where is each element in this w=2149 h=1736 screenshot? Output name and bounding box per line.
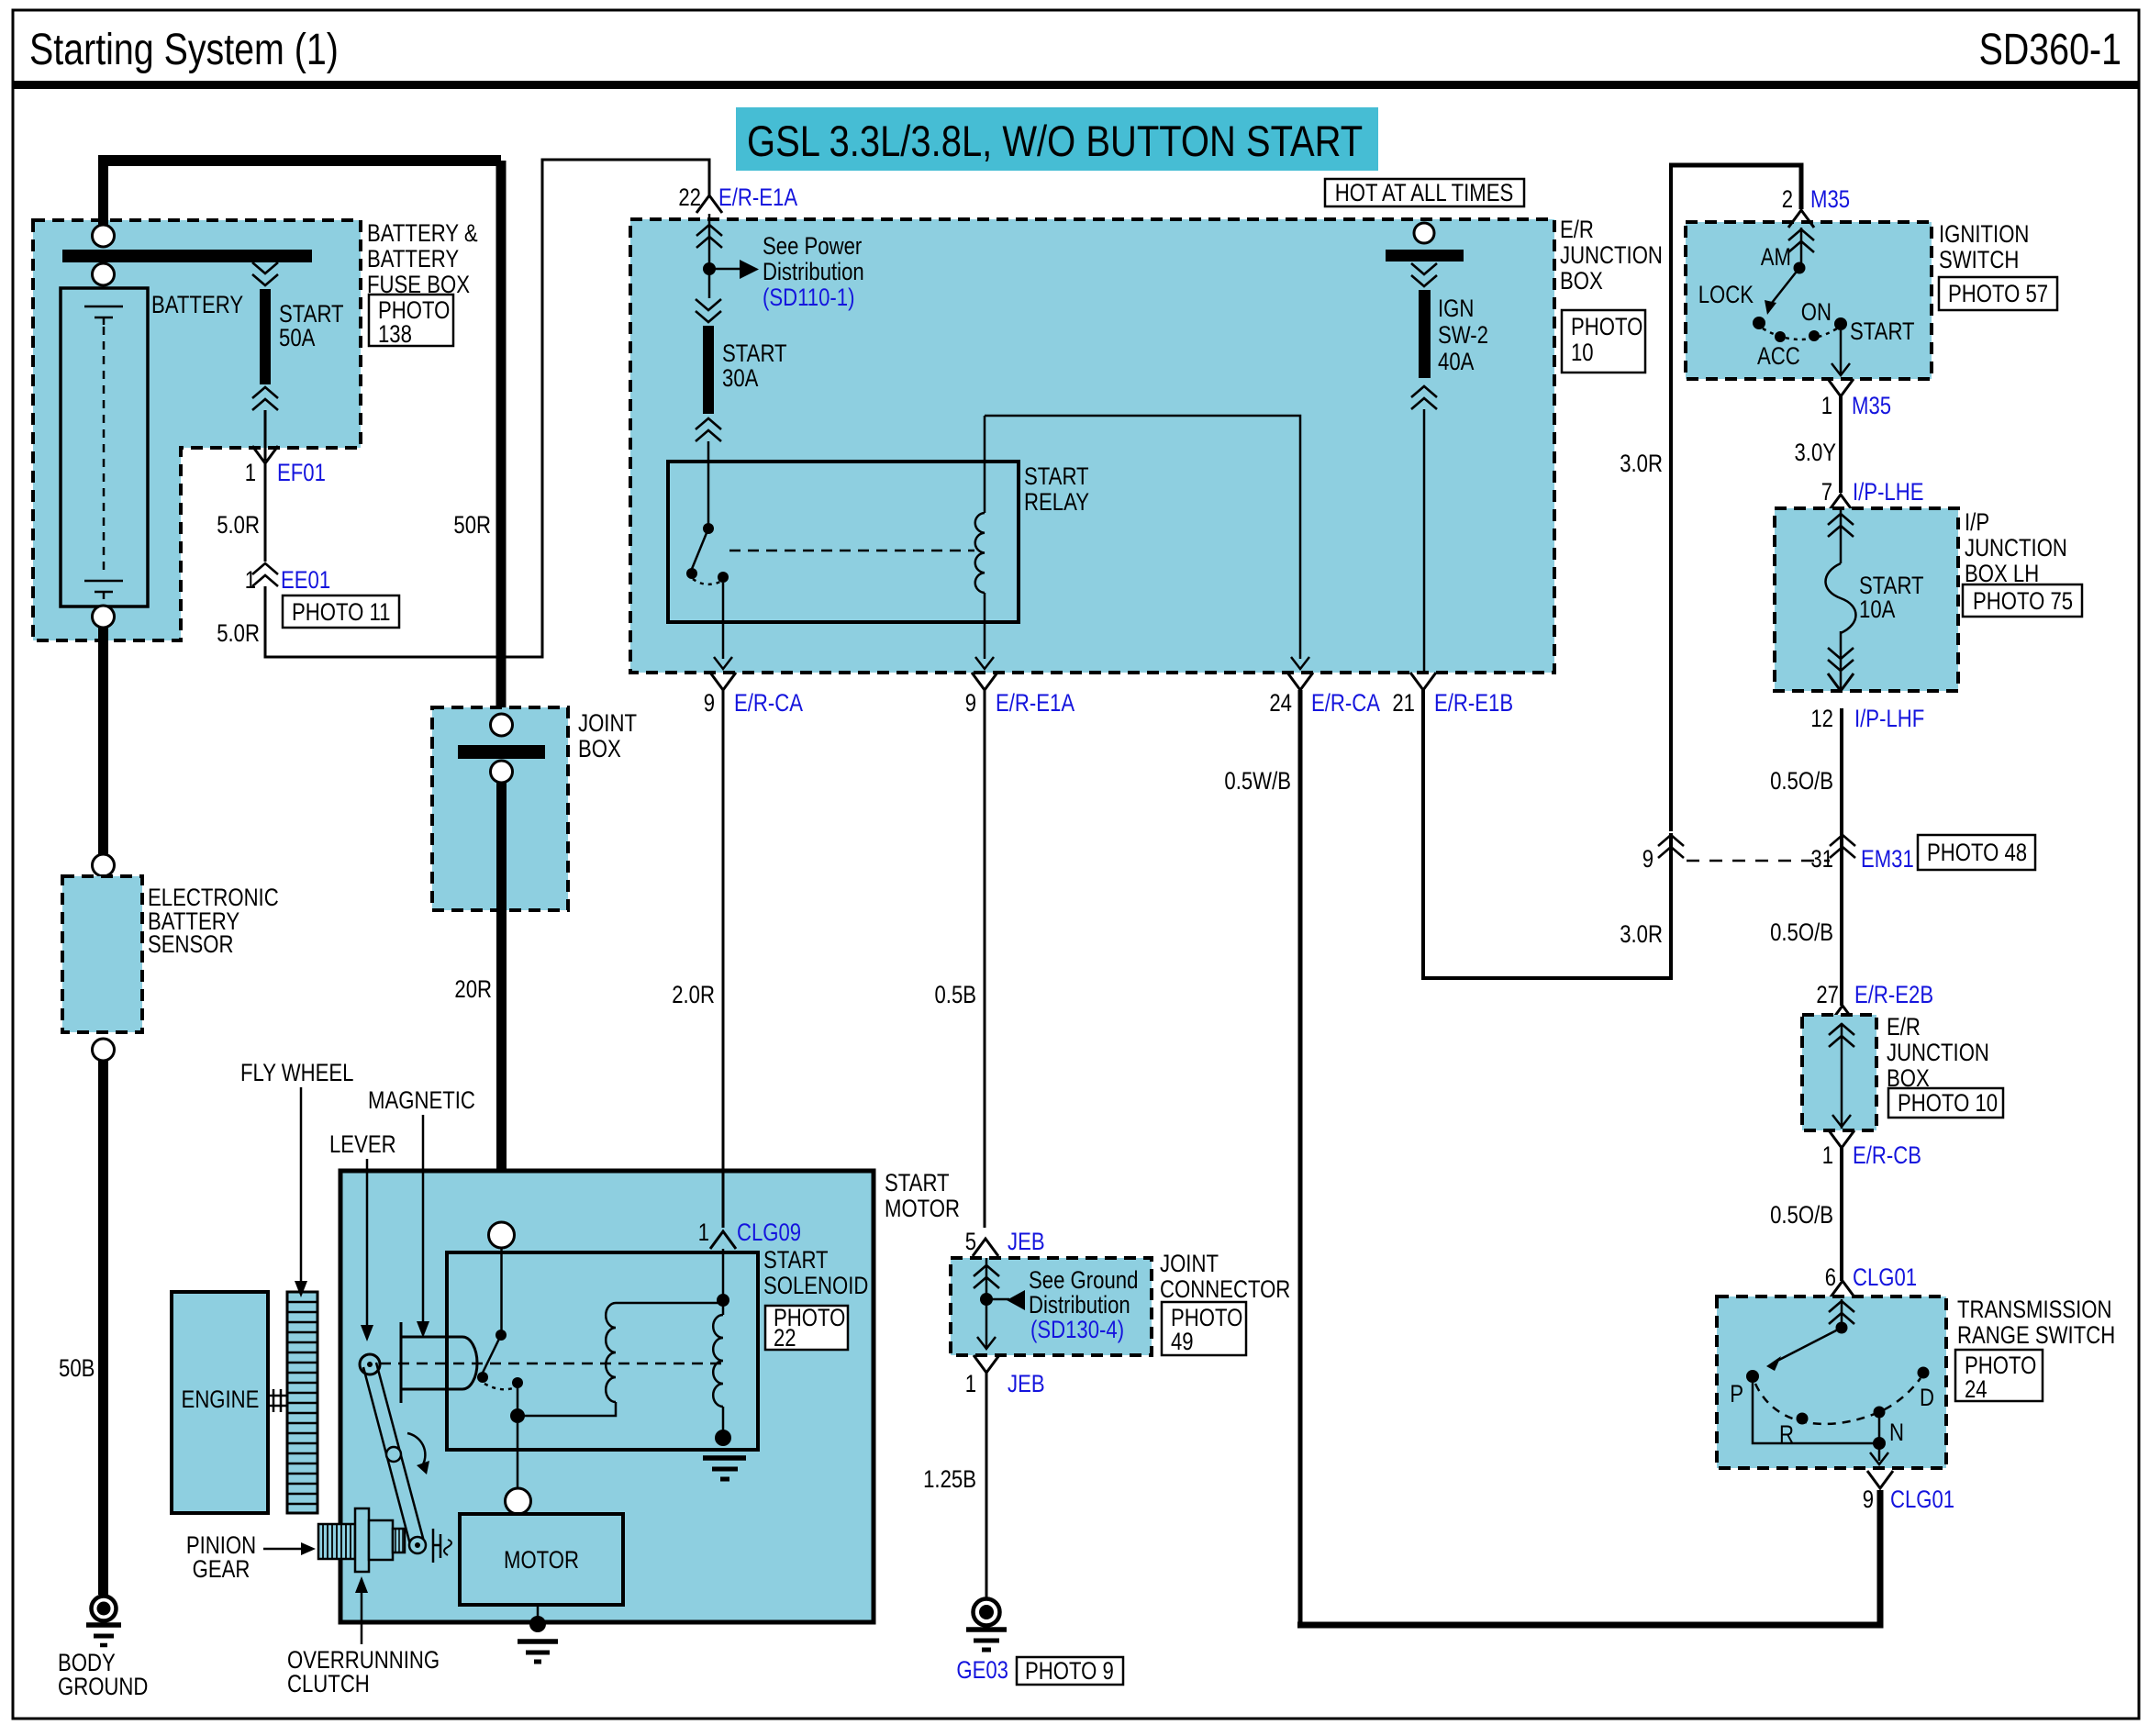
svg-text:40A: 40A (1438, 348, 1474, 375)
wire coil bottom to E/R-E1A 9 (984, 593, 986, 659)
transmission N junction dot (1873, 1437, 1886, 1450)
photo 48 box (1918, 835, 2035, 870)
svg-text:1: 1 (698, 1219, 709, 1246)
relay switch contact top (703, 523, 714, 534)
solenoid dotted travel (484, 1384, 516, 1389)
fuse START 30A arrows down (696, 299, 721, 322)
relay actuation dashed link (729, 550, 974, 552)
relay switch arm (692, 529, 708, 569)
svg-text:9: 9 (965, 689, 976, 717)
svg-text:PHOTO: PHOTO (1571, 313, 1642, 340)
svg-text:PHOTO 48: PHOTO 48 (1927, 839, 2027, 866)
IGN SW-2 terminal circle (1414, 223, 1434, 243)
svg-text:GE03: GE03 (956, 1656, 1008, 1684)
photo 75 box (1963, 584, 2082, 617)
transmission N contact (1874, 1407, 1886, 1419)
transmission P contact (1746, 1370, 1759, 1383)
transmission D contact (1918, 1367, 1930, 1379)
svg-text:5: 5 (965, 1228, 976, 1255)
battery & battery fuse box (33, 220, 361, 640)
fuse START 10A (wavy) (1826, 563, 1856, 633)
solenoid switch common (512, 1377, 523, 1388)
svg-text:M35: M35 (1852, 392, 1891, 419)
svg-text:5.0R: 5.0R (217, 619, 260, 647)
hot at all times box (1325, 179, 1524, 206)
ground GE03 (974, 1599, 1000, 1626)
svg-text:22: 22 (774, 1324, 796, 1352)
engine box (172, 1292, 268, 1513)
battery terminal circle top (93, 225, 115, 247)
ignition dashed travel arc (1763, 328, 1837, 339)
svg-text:PHOTO 9: PHOTO 9 (1025, 1657, 1114, 1685)
svg-text:E/R-E1A: E/R-E1A (996, 689, 1074, 717)
svg-text:0.5O/B: 0.5O/B (1770, 1201, 1833, 1229)
svg-text:FLY WHEEL: FLY WHEEL (240, 1059, 354, 1086)
svg-text:BATTERY &: BATTERY & (367, 219, 478, 247)
svg-text:Starting System (1): Starting System (1) (29, 26, 339, 74)
transmission dashed travel arc (1755, 1378, 1921, 1424)
transmission R contact (1797, 1413, 1809, 1425)
overrunning clutch body (355, 1508, 369, 1572)
svg-text:SW-2: SW-2 (1438, 321, 1488, 349)
ignition switch arm (1772, 268, 1799, 303)
photo 138 box (369, 295, 453, 346)
solenoid ground node (715, 1430, 731, 1446)
svg-text:BOX: BOX (1560, 267, 1603, 295)
fly wheel (287, 1292, 317, 1513)
svg-text:GSL 3.3L/3.8L, W/O BUTTON STAR: GSL 3.3L/3.8L, W/O BUTTON START (747, 117, 1363, 165)
svg-text:22: 22 (678, 184, 701, 211)
lever end (409, 1537, 426, 1553)
svg-text:PHOTO 10: PHOTO 10 (1898, 1089, 1998, 1117)
svg-text:LEVER: LEVER (329, 1130, 396, 1158)
svg-text:HOT AT ALL TIMES: HOT AT ALL TIMES (1335, 179, 1514, 206)
svg-text:GEAR: GEAR (193, 1555, 251, 1583)
terminal circle above sensor (93, 854, 115, 876)
svg-text:1: 1 (965, 1370, 976, 1397)
ignition wire AM (1800, 228, 1803, 263)
svg-text:BATTERY: BATTERY (367, 245, 459, 273)
svg-text:IGN: IGN (1438, 295, 1474, 322)
see ground distribution node (980, 1293, 993, 1306)
fuse START 50A arrows up (252, 387, 278, 410)
svg-text:LOCK: LOCK (1698, 281, 1754, 308)
svg-text:0.5O/B: 0.5O/B (1770, 767, 1833, 795)
svg-text:1.25B: 1.25B (923, 1465, 976, 1493)
E/R junction box (main) (630, 219, 1554, 673)
svg-text:E/R: E/R (1560, 216, 1594, 243)
motor ground node (529, 1616, 546, 1632)
wire 5.0R upper (264, 463, 267, 562)
motor box (460, 1514, 623, 1605)
fuse START 50A arrows down (252, 262, 278, 285)
svg-text:21: 21 (1392, 689, 1415, 717)
wire through small E/R box (1841, 1023, 1843, 1129)
svg-text:BATTERY: BATTERY (151, 291, 243, 318)
transmission common contact (1836, 1322, 1848, 1334)
solenoid switch contact top (495, 1330, 507, 1341)
start relay box (668, 462, 1019, 622)
battery cell bottom short plate (95, 592, 113, 599)
svg-text:(SD130-4): (SD130-4) (1030, 1316, 1124, 1343)
lever joint (386, 1447, 401, 1462)
svg-text:E/R: E/R (1887, 1013, 1921, 1040)
connector E/R-CA pin 24 (1287, 673, 1313, 690)
pinion gear (318, 1524, 355, 1559)
connector E/R-CB pin 1 (1829, 1130, 1854, 1148)
svg-text:50R: 50R (453, 511, 491, 539)
svg-text:JUNCTION: JUNCTION (1560, 241, 1663, 269)
svg-text:RELAY: RELAY (1024, 488, 1089, 516)
svg-text:9: 9 (704, 689, 715, 717)
relay coil (984, 416, 986, 513)
svg-text:IGNITION: IGNITION (1939, 220, 2029, 248)
wire switch to motor (517, 1423, 519, 1489)
20R terminal circle (489, 1222, 515, 1248)
photo 24 box (1955, 1350, 2043, 1401)
photo 9 box (1017, 1657, 1123, 1685)
svg-text:10: 10 (1571, 339, 1594, 366)
ignition ACC contact (1775, 331, 1786, 342)
wire 0.5O/B upper (1840, 708, 1843, 1006)
wire 0.5O/B lower (1840, 1148, 1843, 1281)
battery cell top long plate (84, 306, 123, 308)
svg-text:SWITCH: SWITCH (1939, 246, 2019, 273)
svg-text:SENSOR: SENSOR (148, 930, 234, 958)
connector CLG01 pin 6 (1830, 1281, 1855, 1298)
wire 50B (thick) (98, 1061, 108, 1595)
svg-text:10A: 10A (1859, 595, 1895, 623)
start motor box (340, 1171, 874, 1622)
svg-text:SD360-1: SD360-1 (1979, 26, 2121, 74)
svg-text:ENGINE: ENGINE (182, 1385, 260, 1413)
svg-text:D: D (1920, 1384, 1934, 1411)
svg-text:MOTOR: MOTOR (885, 1195, 960, 1222)
svg-text:EM31: EM31 (1861, 845, 1914, 873)
battery cell top short plate (95, 317, 113, 325)
svg-text:JOINT: JOINT (1160, 1250, 1219, 1277)
wire junction to hold coil (518, 1402, 616, 1416)
svg-text:3.0R: 3.0R (1620, 920, 1663, 948)
wire 3.0R to M35 (1669, 165, 1673, 831)
svg-text:RANGE SWITCH: RANGE SWITCH (1957, 1321, 2115, 1349)
svg-text:CONNECTOR: CONNECTOR (1160, 1275, 1290, 1303)
engine shaft (268, 1389, 287, 1412)
svg-text:MOTOR: MOTOR (504, 1546, 579, 1574)
wire 3.0Y (1839, 396, 1843, 493)
motor ground symbol (518, 1639, 558, 1644)
title banner (736, 107, 1378, 171)
svg-text:6: 6 (1825, 1263, 1836, 1291)
transmission switch arm (1777, 1328, 1842, 1361)
lever rotation arrow (407, 1433, 425, 1464)
solenoid ground symbol (703, 1455, 746, 1461)
svg-text:START: START (1024, 462, 1089, 490)
svg-text:3.0R: 3.0R (1620, 450, 1663, 477)
clutch fork parts (433, 1529, 440, 1563)
svg-text:24: 24 (1965, 1375, 1988, 1403)
svg-text:(SD110-1): (SD110-1) (763, 284, 855, 311)
ignition mid contact (1809, 330, 1820, 341)
transmission wire in (1841, 1299, 1843, 1325)
connector E/R-E1B pin 21 (1410, 673, 1436, 690)
connector E/R-E1A pin 9 (972, 673, 997, 690)
connector E/R-E1A pin 22 (696, 195, 722, 213)
relay switch dotted travel (693, 579, 720, 584)
dashed link to EM31 (1687, 860, 1830, 862)
wire 3.0R loop (1423, 690, 1671, 978)
fuse START 50A (260, 289, 271, 384)
svg-text:MAGNETIC: MAGNETIC (368, 1086, 475, 1114)
svg-text:JUNCTION: JUNCTION (1887, 1039, 1989, 1066)
connector I/P-LHF pin 12 (1828, 673, 1854, 691)
IGN SW-2 bus bar (1386, 250, 1464, 262)
svg-text:PHOTO 75: PHOTO 75 (1973, 587, 2073, 615)
ignition LOCK contact (1753, 317, 1765, 329)
svg-text:1: 1 (245, 566, 256, 594)
fuse START 30A (703, 326, 714, 414)
battery bus to joint box (thick) (98, 155, 501, 166)
photo 10 box (small ER) (1888, 1088, 2003, 1118)
photo 49 box (1162, 1302, 1246, 1355)
lever arm (363, 1363, 424, 1548)
transmission range switch box (1717, 1296, 1946, 1468)
joint box terminal circle top (491, 714, 513, 736)
svg-text:P: P (1730, 1380, 1743, 1408)
photo 57 box (1939, 277, 2057, 310)
joint box (432, 707, 568, 910)
svg-text:0.5O/B: 0.5O/B (1770, 918, 1833, 946)
wire fuse to EF01 (264, 410, 267, 461)
wire fuse to relay switch (707, 441, 710, 524)
svg-text:CLG01: CLG01 (1890, 1486, 1954, 1513)
connector E/R-E2B pin 27 (1830, 1006, 1855, 1023)
lever pivot (360, 1354, 380, 1374)
connector EF01 pin 1 (252, 446, 278, 463)
svg-text:2.0R: 2.0R (672, 981, 715, 1008)
svg-text:CLUTCH: CLUTCH (287, 1670, 370, 1697)
connector EM31 pin 31 (1830, 835, 1855, 858)
svg-text:3.0Y: 3.0Y (1795, 439, 1837, 466)
solenoid junction dot (510, 1408, 525, 1423)
wire 0.5W/B (1298, 690, 1303, 1625)
svg-text:49: 49 (1171, 1328, 1194, 1355)
wire in I/P box (1840, 508, 1843, 691)
photo 11 box (283, 595, 399, 628)
header rule (13, 81, 2139, 89)
wire common to junction (517, 1383, 519, 1411)
battery terminal circle 2 (93, 263, 115, 285)
svg-text:AM: AM (1761, 243, 1791, 271)
relay switch common (718, 572, 729, 583)
svg-text:PHOTO 11: PHOTO 11 (292, 598, 391, 626)
motor terminal circle (506, 1488, 531, 1514)
ignition AM contact (1794, 262, 1806, 274)
svg-text:1: 1 (1821, 392, 1832, 419)
svg-text:E/R-CA: E/R-CA (1311, 689, 1380, 717)
connector M35 pin 2 (1788, 210, 1814, 228)
wire IGN SW-2 to E/R-E1B (1423, 409, 1426, 673)
wire relay common to E/R-CA 9 (722, 583, 725, 659)
fuse START 30A arrows up (696, 418, 721, 441)
pull-in coil (713, 1315, 723, 1407)
svg-text:0.5W/B: 0.5W/B (1224, 767, 1291, 795)
svg-text:BOX LH: BOX LH (1965, 560, 2039, 587)
svg-text:EE01: EE01 (281, 566, 330, 594)
svg-text:24: 24 (1269, 689, 1292, 717)
connector 9 (engine harness) (1658, 835, 1684, 858)
svg-text:E/R-E1B: E/R-E1B (1434, 689, 1513, 717)
svg-text:27: 27 (1816, 981, 1839, 1008)
svg-text:12: 12 (1810, 705, 1833, 732)
connector CLG09 pin 1 (710, 1231, 736, 1249)
svg-text:M35: M35 (1810, 185, 1850, 213)
svg-text:138: 138 (378, 320, 412, 348)
connector EE01 pin 1 (252, 563, 278, 586)
fuse IGN SW-2 arrows up (1411, 386, 1437, 409)
coil link wire (616, 1302, 723, 1305)
svg-text:I/P: I/P (1965, 508, 1989, 536)
electronic battery sensor box (62, 876, 142, 1032)
terminal circle below sensor (93, 1039, 115, 1061)
svg-text:9: 9 (1863, 1486, 1874, 1513)
svg-text:CLG09: CLG09 (737, 1219, 801, 1246)
svg-text:JOINT: JOINT (578, 709, 637, 737)
svg-text:CLG01: CLG01 (1853, 1263, 1917, 1291)
svg-text:GROUND: GROUND (58, 1673, 148, 1700)
transmission P-N wire (1753, 1383, 1879, 1461)
svg-text:E/R-E2B: E/R-E2B (1854, 981, 1933, 1008)
joint box bus bar (458, 745, 545, 759)
wire 20R (thick) (496, 783, 507, 1223)
wire in joint connector (985, 1258, 988, 1349)
svg-text:ON: ON (1801, 298, 1832, 326)
svg-text:JUNCTION: JUNCTION (1965, 534, 2067, 562)
svg-text:See Power: See Power (763, 232, 862, 260)
solenoid dashed axis (380, 1363, 721, 1365)
connector E/R-CA pin 9 (710, 673, 736, 690)
svg-text:SOLENOID: SOLENOID (763, 1272, 868, 1299)
photo 22 box (765, 1306, 848, 1350)
fuse IGN SW-2 40A (1419, 290, 1431, 378)
wire coil top to E/R-CA 24 (985, 416, 1300, 659)
joint connector box (951, 1258, 1152, 1355)
svg-text:START: START (885, 1169, 950, 1196)
svg-text:START: START (763, 1246, 829, 1274)
svg-text:START: START (722, 339, 787, 367)
wire bottom loop (1297, 1490, 1880, 1625)
connector M35 pin 1 (1828, 379, 1854, 396)
2.0R wire to CLG09 (722, 690, 725, 1228)
I/P junction box LH (1775, 508, 1958, 691)
wire 5.0R lower loop to E/R-E1A (265, 160, 709, 657)
svg-text:TRANSMISSION: TRANSMISSION (1957, 1296, 2112, 1323)
battery rectangle (61, 288, 148, 606)
fuse IGN SW-2 arrows down (1411, 263, 1437, 286)
svg-text:ACC: ACC (1757, 342, 1800, 370)
svg-text:See Ground: See Ground (1029, 1266, 1138, 1294)
wire battery feed (thick) (98, 166, 108, 226)
solenoid switch arm (483, 1335, 501, 1373)
svg-text:2: 2 (1782, 185, 1793, 213)
connector JEB pin 5 (973, 1239, 998, 1256)
svg-text:31: 31 (1810, 845, 1833, 873)
motor ground wire (537, 1605, 540, 1619)
svg-text:I/P-LHE: I/P-LHE (1853, 478, 1924, 506)
svg-text:Distribution: Distribution (1029, 1291, 1130, 1319)
connector CLG01 pin 9 (1867, 1471, 1893, 1488)
svg-text:9: 9 (1642, 845, 1654, 873)
svg-text:30A: 30A (722, 364, 758, 392)
svg-text:1: 1 (1822, 1141, 1833, 1169)
svg-text:EF01: EF01 (277, 459, 326, 486)
ignition ON/START contact (1834, 317, 1847, 330)
svg-text:E/R-CB: E/R-CB (1853, 1141, 1921, 1169)
body ground symbol (92, 1597, 117, 1621)
battery cell bottom long plate (84, 580, 123, 583)
svg-text:20R: 20R (454, 975, 492, 1003)
svg-text:E/R-E1A: E/R-E1A (718, 184, 797, 211)
connector JEB pin 1 (974, 1355, 999, 1373)
E/R junction box (small) (1802, 1015, 1876, 1130)
svg-text:JEB: JEB (1008, 1228, 1045, 1255)
solenoid switch wire (500, 1248, 503, 1330)
svg-text:JEB: JEB (1008, 1370, 1045, 1397)
pull-in coil top node (717, 1294, 729, 1307)
start solenoid box (447, 1252, 758, 1450)
wire 1.25B (985, 1373, 988, 1598)
connector I/P-LHE pin 7 (1828, 495, 1854, 512)
pull-in coil to ground (722, 1407, 725, 1431)
svg-text:N: N (1889, 1419, 1904, 1446)
svg-text:7: 7 (1821, 478, 1832, 506)
magnetic yoke (401, 1322, 462, 1403)
battery bus bar (62, 250, 312, 262)
wire START to M35 pin 1 (1840, 330, 1843, 373)
svg-text:BOX: BOX (578, 735, 621, 762)
svg-text:50B: 50B (59, 1354, 95, 1382)
svg-text:0.5B: 0.5B (935, 981, 977, 1008)
svg-text:Distribution: Distribution (763, 258, 864, 285)
battery terminal circle bottom (93, 606, 115, 628)
joint box terminal circle bottom (491, 761, 513, 783)
wire battery negative (thick) (98, 628, 108, 855)
photo 10 box (1562, 310, 1645, 373)
svg-text:50A: 50A (279, 324, 315, 351)
CLG09 wire into solenoid (722, 1249, 725, 1315)
hold-in coil (606, 1303, 616, 1402)
wire 0.5B (984, 690, 986, 1228)
svg-text:PHOTO 57: PHOTO 57 (1948, 280, 2048, 307)
ignition switch box (1686, 222, 1932, 379)
svg-text:I/P-LHF: I/P-LHF (1854, 705, 1924, 732)
fuse START 10A arrows down (1828, 648, 1854, 671)
svg-text:5.0R: 5.0R (217, 511, 260, 539)
wire into E/R box (708, 214, 711, 298)
svg-text:START: START (1850, 317, 1915, 345)
node see-power-distribution (703, 262, 716, 275)
battery dashed center line (103, 327, 106, 573)
svg-text:1: 1 (245, 459, 256, 486)
svg-text:E/R-CA: E/R-CA (734, 689, 803, 717)
